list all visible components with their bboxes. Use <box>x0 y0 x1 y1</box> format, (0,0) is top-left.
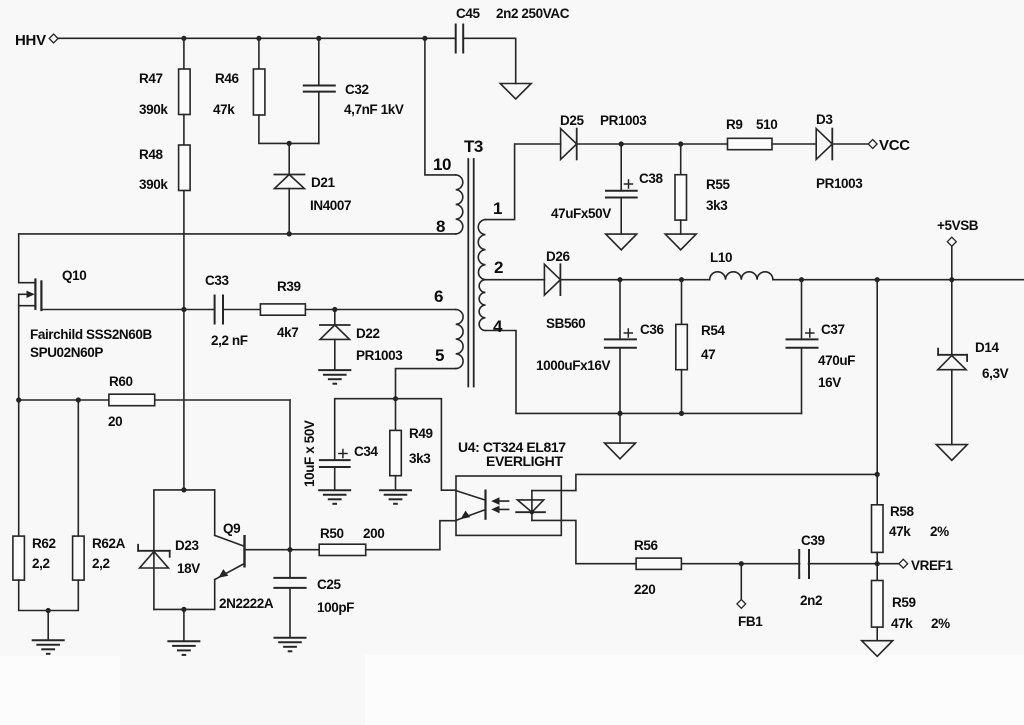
svg-text:PR1003: PR1003 <box>356 348 403 363</box>
svg-text:Q10: Q10 <box>62 268 86 283</box>
resistor R54 <box>681 280 683 325</box>
svg-text:47uFx50V: 47uFx50V <box>551 206 611 221</box>
wire R62 R62A bottom rail <box>19 580 79 610</box>
svg-text:200: 200 <box>363 526 384 541</box>
capacitor C33 <box>214 296 216 324</box>
svg-text:IN4007: IN4007 <box>310 198 351 213</box>
ground under R49 (earth bars) <box>380 489 411 491</box>
wire R39 to D22 node and T3 pin6 <box>305 309 455 311</box>
svg-text:D25: D25 <box>560 113 584 128</box>
wire R48 down to gate line <box>183 191 185 310</box>
capacitor C38 <box>620 144 622 191</box>
node junction dot C36 top <box>617 277 622 282</box>
node junction dot FB1 <box>739 561 744 566</box>
ground under C38 <box>606 234 637 250</box>
op-amp U4 optocoupler box <box>456 476 561 535</box>
wire HHV top rail <box>58 37 456 39</box>
wire gate column down to Q9 box <box>183 310 185 490</box>
svg-text:Fairchild SSS2N60B: Fairchild SSS2N60B <box>30 327 152 342</box>
svg-text:4: 4 <box>493 317 503 336</box>
node junction dot R58 branch <box>875 277 880 282</box>
svg-text:2,2: 2,2 <box>32 556 50 571</box>
diode D23 zener <box>138 550 170 552</box>
svg-text:EVERLIGHT: EVERLIGHT <box>486 453 563 469</box>
svg-text:R60: R60 <box>109 374 133 389</box>
svg-text:R50: R50 <box>320 526 344 541</box>
svg-text:1: 1 <box>493 199 502 218</box>
node junction dot C32 top <box>316 36 321 41</box>
svg-text:PR1003: PR1003 <box>600 113 647 128</box>
svg-text:C34: C34 <box>354 444 378 459</box>
svg-text:47: 47 <box>701 347 715 362</box>
svg-text:R56: R56 <box>634 538 658 553</box>
resistor R62A <box>73 536 85 580</box>
svg-text:8: 8 <box>436 217 445 236</box>
capacitor C25 <box>289 550 291 578</box>
wire Q9 box bottom <box>154 608 215 610</box>
svg-text:R49: R49 <box>409 426 433 441</box>
node junction dot left rail R60 <box>16 397 21 402</box>
svg-text:2: 2 <box>494 258 503 277</box>
capacitor C36 <box>619 280 621 340</box>
svg-text:R47: R47 <box>139 71 163 86</box>
svg-text:5: 5 <box>435 346 444 365</box>
capacitor C37 <box>801 280 803 340</box>
node junction dot R62A top <box>76 397 81 402</box>
resistor R47 <box>183 38 185 69</box>
svg-text:FB1: FB1 <box>738 614 763 629</box>
capacitor C39 <box>798 550 800 578</box>
ground under R59 <box>862 641 893 657</box>
svg-text:10uF x 50V: 10uF x 50V <box>302 420 317 487</box>
svg-text:D23: D23 <box>175 538 199 553</box>
svg-text:2%: 2% <box>930 524 949 539</box>
wire R50 to opto emitter <box>366 521 456 550</box>
transformer T3 primary upper winding (10-8) <box>456 175 463 234</box>
resistor R62 <box>13 536 25 580</box>
svg-text:R62: R62 <box>32 536 56 551</box>
wire R9 to D3 <box>772 143 816 145</box>
node junction dot D21 top <box>287 141 292 146</box>
wire Q9 box <box>154 490 215 610</box>
svg-text:47k: 47k <box>891 616 913 631</box>
node junction dot pin5/R49 rail <box>393 396 398 401</box>
node +5VSB terminal <box>951 246 953 280</box>
resistor R55 <box>680 144 682 175</box>
svg-text:SPU02N60P: SPU02N60P <box>30 345 103 360</box>
svg-text:T3: T3 <box>464 137 483 156</box>
wire down to sense ground <box>47 611 49 641</box>
svg-text:Q9: Q9 <box>223 521 240 536</box>
node junction dot VREF1 <box>875 561 880 566</box>
wire U4 LED anode right <box>532 474 877 490</box>
wire R62A column <box>77 400 79 536</box>
resistor R9 <box>728 138 773 149</box>
wire Q10 gate line to C33 <box>41 309 214 311</box>
svg-text:D3: D3 <box>816 112 833 127</box>
node junction dot R55 top <box>678 141 683 146</box>
svg-text:D26: D26 <box>546 249 570 264</box>
svg-text:R58: R58 <box>890 504 914 519</box>
svg-text:100pF: 100pF <box>317 600 354 615</box>
wire T3 pin5 to C34 rail <box>396 369 456 399</box>
svg-text:+5VSB: +5VSB <box>937 218 979 233</box>
transistor Q10 MOSFET <box>34 280 36 309</box>
diode D26 <box>544 264 560 295</box>
svg-text:VCC: VCC <box>879 137 910 154</box>
transformer T3 secondary winding (1-2-4) <box>478 220 485 331</box>
ground under C34 (earth bars) <box>319 489 350 491</box>
svg-text:R39: R39 <box>277 279 301 294</box>
wire Q9 ground stem <box>183 609 185 641</box>
svg-text:470uF: 470uF <box>818 353 855 368</box>
wire C33 to R39 <box>223 309 260 311</box>
wire D3 to VCC <box>832 143 868 145</box>
svg-text:C38: C38 <box>639 171 663 186</box>
svg-text:R46: R46 <box>215 71 239 86</box>
svg-text:47k: 47k <box>889 524 911 539</box>
svg-text:R48: R48 <box>139 147 163 162</box>
transistor U4 phototransistor <box>456 491 485 500</box>
wire +5VSB to R58 junction <box>876 280 878 475</box>
node junction dot R47 top <box>181 36 186 41</box>
svg-text:10: 10 <box>433 155 451 174</box>
node junction dot gate line / R48 column <box>181 307 186 312</box>
resistor R59 <box>876 564 878 581</box>
diode D3 <box>816 129 832 160</box>
wire C45 to ground <box>463 38 516 83</box>
resistor R58 <box>876 474 878 504</box>
node VREF1 terminal <box>899 559 908 568</box>
svg-text:47k: 47k <box>213 102 235 117</box>
node junction dot +5VSB branch <box>949 277 954 282</box>
node junction dot C36 bottom <box>617 411 622 416</box>
svg-text:510: 510 <box>756 117 777 132</box>
wire R47 to R48 <box>183 115 185 146</box>
wire D25 to R9 <box>577 143 728 145</box>
node junction dot T3 pin10 branch <box>422 36 427 41</box>
svg-text:C45: C45 <box>456 6 480 21</box>
svg-text:1000uFx16V: 1000uFx16V <box>536 358 610 373</box>
diode D25 <box>561 129 577 160</box>
ground under D22 (earth bars) <box>319 369 350 371</box>
svg-text:PR1003: PR1003 <box>816 176 863 191</box>
wire T3 pin4 to bottom rail <box>486 331 802 414</box>
wire T3 pin1 to D25 <box>486 144 561 220</box>
ground under R55 <box>665 234 696 250</box>
diode U4 LED <box>531 491 533 521</box>
node junction dot C37 top <box>799 277 804 282</box>
svg-text:16V: 16V <box>818 375 841 390</box>
ground under C45 <box>500 84 531 100</box>
wire R60 right to Q9 base column <box>289 400 291 550</box>
wire T3 pin10 from top rail <box>425 38 456 175</box>
ground under C36 <box>605 443 636 459</box>
svg-text:R62A: R62A <box>92 536 126 551</box>
node junction dot R46 top <box>256 36 261 41</box>
svg-text:VREF1: VREF1 <box>911 558 953 573</box>
svg-text:390k: 390k <box>139 102 168 117</box>
resistor R49 <box>395 399 397 431</box>
node junction dot D21 anode on drain wire <box>287 231 292 236</box>
wire U4 light arrows <box>494 500 509 502</box>
transformer T3 primary lower winding (6-5) <box>456 310 463 369</box>
transformer T3 core <box>467 159 469 387</box>
resistor R60 <box>109 394 155 406</box>
node junction dot R54 bottom <box>679 411 684 416</box>
svg-text:2N2222A: 2N2222A <box>219 596 274 611</box>
svg-text:2,2: 2,2 <box>92 556 110 571</box>
svg-text:R9: R9 <box>726 117 742 132</box>
svg-text:2n2 250VAC: 2n2 250VAC <box>496 6 570 21</box>
transistor Q9 <box>214 490 216 536</box>
svg-text:6: 6 <box>434 287 443 306</box>
ground under C25 (earth bars) <box>275 637 306 639</box>
ground under R62 (earth bars) <box>33 639 64 641</box>
wire VREF1 line <box>636 563 899 565</box>
wire +5VSB rail right <box>773 279 1024 281</box>
svg-text:R54: R54 <box>701 323 725 338</box>
svg-text:HHV: HHV <box>15 32 46 49</box>
svg-text:D21: D21 <box>311 175 335 190</box>
svg-text:R59: R59 <box>892 595 916 610</box>
node junction dot Q9 collector top <box>181 487 186 492</box>
resistor R46 <box>258 38 260 69</box>
wire left rail down to R62 <box>18 400 20 536</box>
capacitor C32 <box>318 38 320 85</box>
svg-text:20: 20 <box>108 414 122 429</box>
node junction dot D22 top <box>332 307 337 312</box>
capacitor C34 <box>320 459 350 461</box>
svg-text:SB560: SB560 <box>546 316 585 331</box>
svg-text:6,3V: 6,3V <box>982 366 1009 381</box>
wire drain to T3 pin8 <box>19 234 456 283</box>
svg-text:2,2 nF: 2,2 nF <box>211 333 248 348</box>
ground under D14 <box>936 445 967 461</box>
wire T3 pin2 to D26 <box>486 279 545 281</box>
node junction dot Q9 emitter ground <box>181 607 186 612</box>
node junction dot sense ground <box>46 608 51 613</box>
resistor R50 <box>319 544 366 555</box>
svg-text:D22: D22 <box>356 326 380 341</box>
node junction dot R58 top <box>875 472 880 477</box>
resistor R39 <box>260 304 305 315</box>
node VCC terminal <box>868 140 877 149</box>
wire Q9 base to node <box>245 549 320 551</box>
svg-text:C32: C32 <box>345 82 369 97</box>
inductor L10 <box>710 272 773 280</box>
svg-text:3k3: 3k3 <box>706 198 728 213</box>
svg-text:390k: 390k <box>139 177 168 192</box>
wire +5VSB rail <box>560 279 709 281</box>
svg-text:C33: C33 <box>205 273 229 288</box>
wire FB1 stem <box>740 564 742 600</box>
svg-text:C25: C25 <box>317 577 341 592</box>
svg-text:220: 220 <box>634 582 655 597</box>
svg-text:4k7: 4k7 <box>277 325 298 340</box>
wire C34 R49 top rail <box>335 399 456 491</box>
svg-text:C36: C36 <box>640 322 664 337</box>
diode D22 <box>334 310 336 326</box>
ground under Q9 (earth bars) <box>168 640 199 642</box>
svg-text:18V: 18V <box>177 561 200 576</box>
svg-text:R55: R55 <box>706 177 730 192</box>
wire C36 ground stem <box>619 413 621 443</box>
wire source rail R60 line <box>19 399 290 401</box>
capacitor C45 <box>455 25 457 53</box>
wire U4 LED cathode right <box>532 520 636 563</box>
svg-text:C37: C37 <box>821 322 845 337</box>
node junction dot Q9 base node <box>287 547 292 552</box>
node FB1 terminal <box>737 600 746 609</box>
node junction dot R54 top <box>679 277 684 282</box>
node HHV terminal <box>49 34 58 43</box>
wire R46 bottom to D21 node <box>259 115 319 143</box>
diode D14 zener <box>951 280 953 355</box>
svg-text:2n2: 2n2 <box>800 593 822 608</box>
svg-text:4,7nF 1kV: 4,7nF 1kV <box>344 102 404 117</box>
resistor R56 <box>636 558 681 569</box>
svg-text:C39: C39 <box>801 533 825 548</box>
node junction dot C38 top <box>619 141 624 146</box>
diode D21 <box>288 143 290 174</box>
svg-text:D14: D14 <box>975 340 999 355</box>
svg-text:L10: L10 <box>710 250 732 265</box>
svg-text:3k3: 3k3 <box>409 451 431 466</box>
resistor R48 <box>179 145 191 191</box>
svg-text:2%: 2% <box>931 616 950 631</box>
